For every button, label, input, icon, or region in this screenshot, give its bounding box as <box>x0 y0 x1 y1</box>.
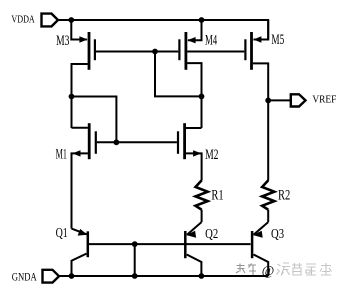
transistor M5 gate bar <box>244 39 246 60</box>
transistor M1 source wire with arrow <box>72 153 88 228</box>
transistor Q3 emitter wire with arrow <box>254 222 269 235</box>
wire R1 to Q2 <box>201 210 203 223</box>
transistor M1 channel bar <box>88 123 91 159</box>
resistor R2 <box>262 180 274 209</box>
node VREF tap <box>265 98 271 104</box>
svg-text:GNDA: GNDA <box>12 272 38 284</box>
node ground Q2 junction <box>199 273 205 279</box>
wire M3 drain to M1 gate branch <box>72 97 117 143</box>
node ground Q1 junction <box>69 273 75 279</box>
wire mirror gate net M3-M4 <box>96 51 178 53</box>
transistor M1 gate bar <box>95 131 97 154</box>
wire VDDA top rail <box>58 20 268 40</box>
transistor Q2 base bar <box>184 231 187 258</box>
svg-text:@: @ <box>262 263 275 278</box>
transistor M2 channel bar <box>183 123 186 159</box>
resistor R1 <box>196 180 208 209</box>
watermark user name glyph blocks <box>277 263 332 276</box>
port VDDA flag symbol <box>42 14 59 27</box>
svg-text:Q3: Q3 <box>271 227 284 242</box>
node VDDA-M4 junction <box>199 17 205 23</box>
svg-text:M4: M4 <box>205 32 218 48</box>
transistor Q1 emitter wire with arrow <box>72 229 87 235</box>
transistor Q1 base wire <box>89 243 251 245</box>
transistor M5 channel bar <box>250 32 253 70</box>
wire ground rail <box>59 275 268 277</box>
transistor M5 drain wire <box>253 63 268 180</box>
transistor Q1 base bar <box>87 231 90 257</box>
transistor M2 drain wire <box>186 127 202 129</box>
wire R2 to Q3 <box>267 210 269 223</box>
transistor M3 source wire with arrow <box>71 20 87 40</box>
svg-text:R2: R2 <box>278 188 290 204</box>
port GNDA flag symbol <box>43 270 60 283</box>
svg-text:M2: M2 <box>205 147 218 163</box>
svg-text:M1: M1 <box>56 147 67 163</box>
transistor Q2 collector wire <box>187 255 202 277</box>
transistor M4 gate bar <box>178 39 180 60</box>
transistor M2 source wire with arrow <box>186 153 202 180</box>
transistor Q2 emitter wire with arrow <box>187 222 202 235</box>
wire common gate M1-M2 <box>97 141 177 143</box>
node VDDA-M3 junction <box>68 17 74 23</box>
transistor Q3 base bar <box>251 231 254 258</box>
svg-text:M5: M5 <box>271 32 284 48</box>
wire VREF <box>268 99 291 101</box>
node M4 drain diode connection <box>199 94 205 100</box>
wire gate net down to M4 drain <box>155 52 202 97</box>
port VREF flag symbol <box>291 94 306 106</box>
node base rail junction <box>132 241 138 247</box>
wire gate net M4-M5 <box>187 51 244 53</box>
transistor M5 source wire with arrow <box>254 20 269 40</box>
node M3 drain branch junction <box>69 94 75 100</box>
svg-text:VDDA: VDDA <box>11 14 35 26</box>
transistor M4 channel bar <box>184 32 187 70</box>
transistor Q3 collector wire <box>254 255 269 277</box>
svg-text:Q1: Q1 <box>56 226 68 241</box>
node M1-M2 gate junction <box>114 139 120 145</box>
transistor M4 source wire with arrow <box>188 20 202 40</box>
node ground base junction <box>132 273 138 279</box>
node mirror gate junction <box>152 49 158 55</box>
svg-text:Q2: Q2 <box>205 227 218 242</box>
transistor M1 drain wire <box>72 127 88 129</box>
svg-text:M3: M3 <box>56 33 69 49</box>
svg-text:VREF: VREF <box>312 93 336 105</box>
transistor M3 gate bar <box>94 39 96 60</box>
transistor M3 channel bar <box>88 32 91 70</box>
transistor M3 drain wire <box>72 64 88 128</box>
transistor Q1 collector wire <box>72 254 87 276</box>
transistor M2 gate bar <box>177 131 179 154</box>
transistor M4 drain wire <box>187 63 201 128</box>
svg-text:R1: R1 <box>211 188 223 204</box>
watermark zhihu logo text <box>236 264 256 276</box>
wire base rail to ground <box>134 244 136 276</box>
